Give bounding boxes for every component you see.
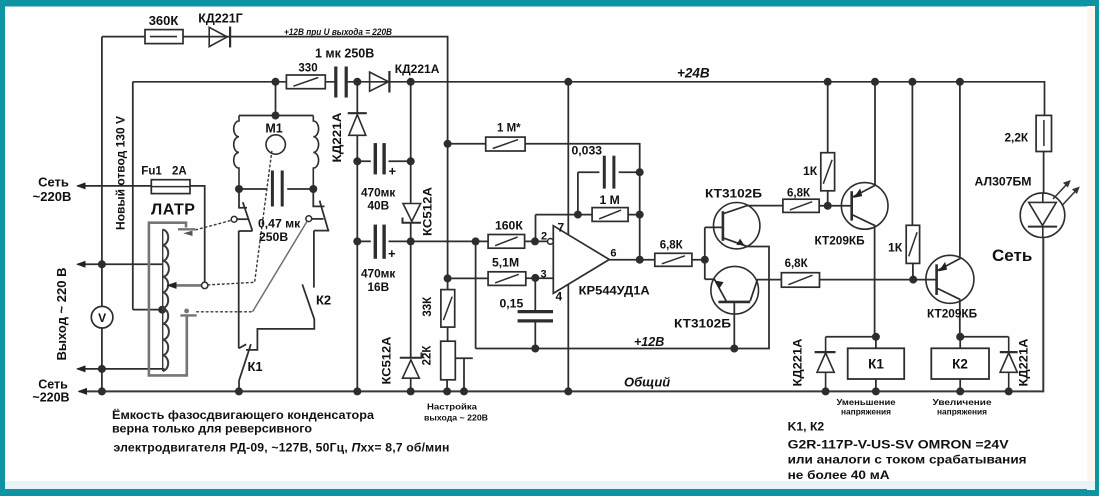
junction dot +24V pin7 branch [564,78,572,86]
junction dot K2 diode bottom [1005,387,1013,395]
svg-text:Общий: Общий [624,375,670,390]
resistor 2.2K [1036,115,1051,151]
junction dot motor top [272,112,280,120]
wire node-358 vertical rail [356,82,358,392]
LATR top tap T-bar with arrow [178,229,195,236]
svg-text:К2: К2 [952,357,968,372]
wire K1 bottom [875,379,877,391]
svg-text:К1: К1 [248,359,263,374]
junction dot rail-output upper [98,260,106,268]
junction dot pin2 node [531,237,539,245]
svg-text:электродвигателя РД-09, ~127В: электродвигателя РД-09, ~127В, 50Гц, Пхх… [114,441,450,455]
svg-text:0,47 мк: 0,47 мк [258,217,301,231]
svg-text:470мк: 470мк [361,267,395,281]
svg-text:КТ3102Б: КТ3102Б [674,317,731,331]
relay coil K2 box [931,348,989,379]
svg-text:16В: 16В [368,280,390,294]
junction dot 0.15 bottom on +12V wire [531,345,539,353]
svg-text:КР544УД1А: КР544УД1А [579,283,650,297]
junction dot lower Q to +12V [730,345,738,353]
junction dot K1 bottom [872,387,880,395]
svg-text:Увеличение: Увеличение [933,397,992,407]
svg-text:5,1М: 5,1М [492,256,519,270]
svg-text:КД221А: КД221А [793,339,805,387]
junction dot +24V KT209 no2 emitter [956,78,964,86]
svg-text:Уменьшение: Уменьшение [837,397,896,407]
gray diagonal link to right switch [253,221,308,312]
capacitor 0.47uF 250V [239,188,313,190]
resistor 330 [286,75,325,89]
svg-text:6,8К: 6,8К [785,258,809,270]
wire 33K-22K [447,327,449,341]
wire 6.8K2 to KT209 base [819,205,852,207]
wire pin4 to common rail [567,284,569,391]
motor right winding [313,116,318,190]
dashed link top tap to left switch [196,220,232,230]
wire 6.8K3 row to KT209 no2 base [820,279,937,281]
svg-text:3: 3 [541,268,547,280]
junction dot +24V KT209 no1 emitter [871,78,879,86]
junction dot K1 diode bottom [822,387,830,395]
resistor 160K [488,235,524,249]
junction dot node 411 top [407,78,415,86]
svg-text:4: 4 [556,289,563,303]
junction dot feedback left [574,211,582,219]
svg-text:+24В: +24В [677,66,710,81]
svg-text:+: + [388,246,396,261]
LATR new tap 130V gray circle and bar [180,309,196,316]
svg-text:1 М: 1 М [600,193,620,207]
wire upper base y=227.4 [705,226,723,228]
svg-text:Ёмкость фазосдвигающего конд: Ёмкость фазосдвигающего конденсатора [112,407,374,422]
LED emission arrows [1053,180,1080,206]
svg-text:КД221Г: КД221Г [198,12,242,26]
svg-text:КС512А: КС512А [423,187,435,236]
arrow output lower [76,365,86,372]
svg-text:Сеть: Сеть [992,246,1032,265]
svg-text:330: 330 [298,62,317,74]
wire motor branch from 330 row [275,82,277,116]
svg-text:не более 40 мА: не более 40 мА [788,468,890,482]
junction dot 1M right [636,211,644,219]
svg-text:1К: 1К [803,164,818,178]
wire +12V top line from left rail through 360K down to 33K [102,37,448,290]
capacitor 470uF 16V [357,240,410,242]
svg-text:360К: 360К [149,13,179,28]
wire 2.2K to LED [1043,152,1045,194]
relay contact K1 arm [239,344,251,391]
wire 5.1M row y=278 [448,277,554,279]
zener KS512A no1 pointing down [403,204,422,223]
svg-text:АЛ307БМ: АЛ307БМ [975,174,1032,188]
diode KD221A vertical cathode-up [348,113,367,135]
svg-text:160К: 160К [495,218,523,232]
svg-text:выхода ~ 220В: выхода ~ 220В [424,413,488,423]
capacitor 0.033 [604,156,614,189]
svg-text:КТ209КБ: КТ209КБ [815,234,866,248]
junction dot 1M-star left [444,140,452,148]
junction dot motor branch on 330 row [272,78,280,86]
svg-text:К1: К1 [868,357,884,372]
svg-text:Настройка: Настройка [427,402,477,412]
svg-text:6: 6 [610,247,616,259]
svg-text:40В: 40В [368,199,390,213]
junction dot rail bottom left [98,387,106,395]
svg-text:~220В: ~220В [33,189,72,204]
motor M1 circle [266,135,285,154]
junction dot +24V 1K no1 [824,78,832,86]
label Uvelichenie napryazheniya [933,397,992,417]
svg-text:Выход ~ 220 В: Выход ~ 220 В [54,268,69,361]
svg-text:КС512А: КС512А [382,337,394,385]
svg-text:0,033: 0,033 [572,144,603,158]
resistor 1M-star [486,137,525,151]
arrow mains bottom left [78,388,88,395]
svg-text:1 М*: 1 М* [497,122,521,134]
junction dot 913-279 [909,276,917,284]
wire node-411 vertical rail [410,82,412,392]
junction dot motor left bottom [235,185,243,193]
transistor KT209KB no1 PNP [841,82,888,337]
wire vertical 476 to 0.15 row [475,241,477,348]
junction dot output-feedback [636,256,644,264]
wire op-amp output y=259.7 [609,259,705,261]
svg-text:КТ3102Б: КТ3102Б [705,187,762,201]
junction dot 0.033 right [636,168,644,176]
LED AL307BM [1020,193,1065,238]
wire mains input through fuse Fu1 down to LATR wiper [78,186,205,282]
junction dot pin4 rail [564,387,572,395]
wire 22K bottom [446,380,448,392]
wire winding tap 309 horizontal [133,309,163,311]
wire +12V row y=348 [476,247,769,349]
wire motor top bar [239,115,313,117]
op-amp KR544UD1A triangle [553,226,609,294]
junction dot +24V 1K no2 [908,78,916,86]
resistor 1K no2 [906,225,919,263]
transistor KT209KB no2 PNP [926,82,974,337]
label Set ~220V bottom-left [32,378,69,405]
resistor 5.1M [488,272,526,286]
svg-text:+12В: +12В [634,335,664,349]
wire left switch down to K1 [238,231,240,348]
right motor switch contact [306,189,329,231]
wire pin7 from +24V rail [567,82,569,235]
svg-text:Сеть: Сеть [38,378,68,392]
resistor 6.8K no2 [783,199,819,212]
svg-text:КД221А: КД221А [395,62,440,76]
wire 1K no1 bottom [827,191,829,206]
diode KD221G [209,27,230,48]
junction dot pin3 node [531,274,539,282]
trimmer tap of 22K [455,358,473,391]
resistor 1M feedback [592,208,628,222]
svg-text:250В: 250В [259,230,288,244]
resistor 22K trimmer [441,341,456,380]
transistor KT3102B lower NPN rotated [705,266,782,348]
svg-text:22К: 22К [422,345,434,366]
svg-text:2,2К: 2,2К [1005,131,1029,145]
resistor 360K [145,30,183,44]
capacitor 0.15 horizontal plates [518,312,553,321]
svg-text:или аналоги с током срабатыван: или аналоги с током срабатывания [788,453,1027,467]
svg-text:+12В при U выхода = 220В: +12В при U выхода = 220В [284,27,392,38]
junction dot node 358 top [353,78,361,86]
svg-text:0,15: 0,15 [500,296,524,310]
wire 1K no2 top [911,82,913,226]
resistor 6.8K no3 [781,273,819,288]
wire K1 top and to diode [826,337,876,349]
fuse Fu1 2A [151,180,190,194]
wire base tree vertical 704.8 [704,227,706,279]
svg-text:КД221А: КД221А [332,113,344,163]
relay contact K2 arm and step wire to K1 [246,284,314,350]
svg-text:М1: М1 [265,122,282,136]
junction dot 33K top [444,274,452,282]
wire K2 top and to diode [960,337,1009,349]
junction dot K1 bottom rail [235,387,243,395]
wire 160K row y=241 [411,240,548,242]
wire feedback left leg [577,172,579,214]
junction dot 411-241 [407,237,415,245]
junction dot 6.8K output [701,256,709,264]
svg-text:1 мк 250В: 1 мк 250В [315,47,374,61]
left motor switch contact [231,189,252,231]
svg-text:КТ209КБ: КТ209КБ [927,306,978,320]
wire K2 bottom [959,379,961,391]
wire 1K no2 bottom [912,263,914,279]
junction dot 358-241 [353,237,361,245]
diode KD221A horizontal [370,71,390,93]
junction dot K2 bottom [956,387,964,395]
junction dot winding tap [158,306,166,314]
op-amp pin2 inversion circle [548,239,554,245]
wire right switch down to K2 contact [313,231,315,288]
junction dot 411-161 [407,157,415,165]
svg-text:K1, К2: K1, К2 [788,420,825,434]
LATR wiper arrow and link to circle [166,282,201,289]
wire left rail x=102 [101,37,103,392]
svg-text:2: 2 [541,230,547,242]
svg-text:V: V [98,311,106,325]
svg-text:К2: К2 [316,293,331,308]
wire 0.033 row y=172 [578,171,640,173]
wire +24V rail y=82 [133,82,1045,116]
wire pin3 down to cap 0.15 [534,278,536,349]
LATR wiper drive circle [202,282,208,288]
svg-text:КД221А: КД221А [1019,339,1031,387]
junction dot 358 bottom rail [353,387,361,395]
arrow output upper [76,261,86,268]
note relays text [788,420,1027,482]
arrow mains input left [76,182,86,189]
junction dot 358-161 [353,157,361,165]
zener KS512A no2 pointing up [400,353,422,379]
svg-text:+: + [389,164,397,179]
svg-text:7: 7 [558,220,565,234]
dashed link new tap to diagonal [197,311,253,313]
svg-text:верна только для реверсивного: верна только для реверсивного [112,422,312,436]
note capacitor phase text [112,407,450,455]
LATR winding coil [163,230,169,372]
wire 1M-star row y=143.5 [448,144,640,172]
label Nastroika vyhoda [424,402,488,423]
resistor 1K no1 [821,153,835,191]
resistor 6.8K no1 [655,253,692,266]
svg-text:6,8К: 6,8К [660,240,684,252]
svg-text:Новый отвод 130 V: Новый отвод 130 V [114,116,128,230]
svg-text:ЛАТР: ЛАТР [151,202,195,219]
wire output lower terminal y=369 to winding bottom [78,368,165,370]
dashed mechanical link wiper to motor [208,152,272,285]
junction dot K2 top [956,333,964,341]
voltmeter V circle [91,306,113,328]
wire bottom common rail y=391 [79,237,1043,391]
junction dot trimmer tap [460,387,468,395]
svg-text:G2R-117P-V-US-SV OMRON =24V: G2R-117P-V-US-SV OMRON =24V [788,437,1010,451]
label Umenshenie napryazheniya [837,397,896,417]
transistor KT3102B upper NPN [714,203,783,249]
svg-text:Fu1: Fu1 [141,165,162,177]
svg-text:33К: 33К [422,296,434,317]
junction dot 828-206 [824,202,832,210]
svg-text:напряжения: напряжения [841,407,891,417]
wire feedback right leg to output [639,172,641,260]
svg-text:~220В: ~220В [32,391,69,405]
capacitor 1uF 250V [336,67,346,98]
diode KD221A relay K2 [1000,337,1018,392]
junction dot 411 bottom rail [407,387,415,395]
junction dot 22K bottom [443,387,451,395]
svg-text:2А: 2А [172,165,187,177]
svg-text:напряжения: напряжения [937,407,987,417]
label 470uF 16V [361,267,395,295]
LATR case gray frame [149,223,187,376]
junction dot 476-241 [472,237,480,245]
svg-text:470мк: 470мк [361,186,395,200]
svg-text:Сеть: Сеть [38,175,69,190]
contact tick K1 [239,344,247,348]
junction dot rail-output lower [98,365,106,373]
wire output upper terminal y=264 [78,263,163,265]
junction dot K1 top [872,333,880,341]
svg-text:6,8К: 6,8К [787,188,811,200]
wire 1M row to pin2 [536,215,640,242]
wire 1K no1 top [827,82,829,153]
wire 330-row vertical x=133 down to winding tap [132,82,134,310]
capacitor 470uF 40V [357,160,410,162]
resistor 33K [441,290,455,328]
diode KD221A relay K1 [815,337,836,392]
motor left winding [234,116,239,190]
relay coil K1 box [848,348,905,379]
label Set ~220V upper-left [33,175,72,205]
svg-text:1К: 1К [888,240,903,254]
junction dot motor right bottom [309,185,317,193]
label 470uF 40V [361,186,395,213]
